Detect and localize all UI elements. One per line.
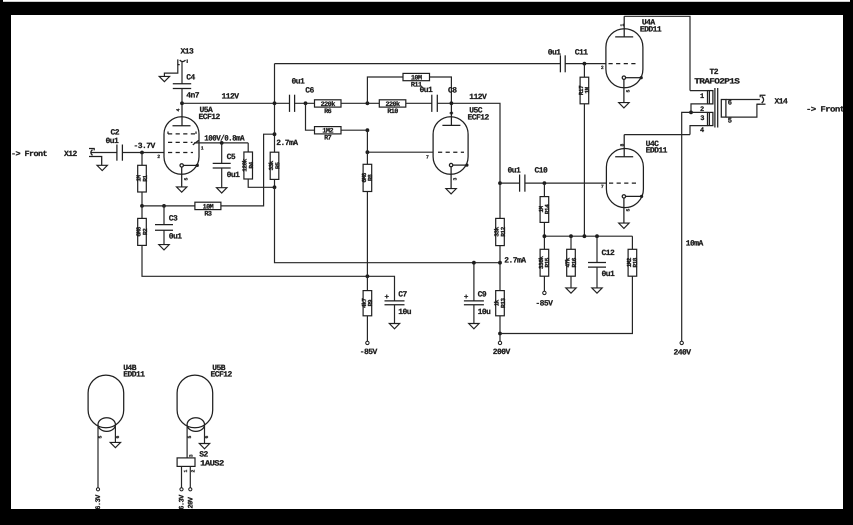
- svg-text:EDD11: EDD11: [123, 370, 145, 379]
- U5C cathode: [449, 163, 467, 188]
- value 0u1 (C8): [420, 86, 434, 95]
- label C9: [478, 291, 487, 300]
- tube U5A outline: [164, 117, 199, 175]
- ground under R16: [566, 288, 576, 293]
- svg-text:R6: R6: [324, 108, 332, 116]
- svg-text:2.7mA: 2.7mA: [276, 139, 298, 148]
- wire U5B pin5 to S2: [186, 426, 188, 458]
- wire R9 to -85V: [366, 316, 368, 341]
- resistor R5: [268, 134, 281, 187]
- svg-text:3: 3: [700, 115, 704, 123]
- resistor R18: [500, 236, 639, 333]
- pin 8 label (U5C anode): [449, 112, 455, 115]
- label 6.3V (U4B): [95, 494, 103, 510]
- svg-text:R16: R16: [571, 257, 578, 267]
- svg-text:1M: 1M: [584, 87, 591, 94]
- svg-text:R15: R15: [544, 257, 551, 267]
- node grid/R8: [366, 150, 370, 154]
- node cathode/envelope U4C: [640, 195, 643, 198]
- wire C10 to U4C grid: [525, 182, 607, 184]
- connector X14 jack: [757, 95, 766, 104]
- svg-text:0u1: 0u1: [227, 171, 241, 180]
- svg-text:100V/0.8mA: 100V/0.8mA: [204, 135, 244, 144]
- wire R3 to riser: [221, 134, 275, 206]
- ground under U5B: [199, 444, 209, 449]
- svg-text:EDD11: EDD11: [640, 25, 662, 34]
- value 0u1 (C5): [227, 171, 241, 180]
- svg-text:R1: R1: [142, 175, 149, 182]
- svg-text:ECF12: ECF12: [211, 370, 233, 379]
- resistor R15: [538, 249, 551, 291]
- svg-text:-85V: -85V: [535, 300, 553, 309]
- label 10mA: [686, 239, 704, 248]
- ground under X13: [159, 76, 169, 81]
- terminal 200V: [498, 341, 501, 344]
- resistor R10: [379, 100, 406, 116]
- svg-text:R9: R9: [367, 299, 374, 306]
- pin 7 label (U5C grid): [426, 154, 429, 160]
- wire R8 to rail: [366, 192, 368, 291]
- svg-text:0u1: 0u1: [106, 137, 120, 146]
- connector X12 label: [64, 150, 78, 159]
- wire R5 bottom to 2.7mA rail: [275, 187, 501, 290]
- svg-text:4n7: 4n7: [186, 92, 200, 101]
- U5A anode: [173, 103, 191, 126]
- wire 112V rail right: [437, 103, 500, 218]
- svg-text:1: 1: [700, 93, 704, 101]
- node C8/U5C anode: [450, 101, 454, 105]
- value 0u1 (C10): [508, 167, 522, 176]
- wire R2 bottom rail: [142, 245, 395, 301]
- svg-text:C6: C6: [305, 87, 314, 96]
- svg-text:R7: R7: [324, 135, 332, 143]
- svg-text:R8: R8: [367, 174, 374, 181]
- svg-text:6.3V: 6.3V: [179, 494, 187, 510]
- label 1AUS2: [200, 460, 224, 469]
- svg-text:10mA: 10mA: [686, 239, 704, 248]
- svg-text:R4: R4: [248, 162, 255, 169]
- svg-text:0u1: 0u1: [602, 270, 616, 279]
- label -85V (R15): [535, 300, 553, 309]
- wire R10 to C8: [406, 102, 432, 104]
- tube U4B outline: [88, 375, 124, 428]
- wire U5C grid: [367, 151, 433, 153]
- pin 5 label (U4A cathode): [626, 90, 632, 93]
- U5A grid g2: [168, 140, 199, 145]
- pin 5 label (U5A cathode): [183, 178, 189, 181]
- ground under U4C: [619, 223, 629, 228]
- node R12/R13 on rail: [498, 261, 502, 265]
- svg-text:0u1: 0u1: [508, 167, 522, 176]
- resistor R14: [538, 183, 551, 249]
- wire S2 pin1: [181, 466, 183, 487]
- svg-text:C8: C8: [448, 87, 457, 96]
- node 200V: [498, 332, 502, 336]
- node C4/U5A anode: [180, 101, 184, 105]
- U5A grid g1: [168, 152, 193, 154]
- ground under U4B: [110, 442, 120, 447]
- node cathode/envelope U5A: [196, 164, 199, 167]
- pin 6 label (U4B): [115, 436, 121, 439]
- node C10 input: [498, 181, 502, 185]
- svg-text:R2: R2: [142, 228, 149, 235]
- resistor R12: [493, 218, 506, 262]
- ground under C7: [389, 324, 399, 329]
- svg-text:C11: C11: [575, 48, 589, 57]
- node R14/R15: [543, 234, 547, 238]
- pin 6 label (T2): [728, 100, 732, 108]
- svg-text:0u1: 0u1: [420, 86, 434, 95]
- U4B heater: [98, 418, 115, 432]
- wire U4C anode to trafo pin4: [624, 134, 690, 136]
- svg-text:240V: 240V: [674, 349, 692, 358]
- svg-text:X14: X14: [775, 98, 789, 107]
- svg-text:10u: 10u: [478, 308, 492, 317]
- svg-text:-> Front: -> Front: [11, 150, 48, 159]
- terminal U4B heater: [96, 488, 99, 491]
- label C12: [602, 249, 616, 258]
- transformer T2 winding 3-4: [690, 112, 713, 134]
- svg-text:EDD11: EDD11: [646, 147, 668, 156]
- svg-text:C7: C7: [398, 291, 407, 300]
- wire bias rail: [544, 235, 632, 237]
- wire U5B pin6: [204, 426, 206, 444]
- wire C11 to U4A grid: [565, 63, 606, 65]
- wire S2 pin2: [189, 466, 191, 487]
- svg-text:6.3V: 6.3V: [95, 494, 103, 510]
- terminal S2 pin1: [180, 488, 183, 491]
- pin 3 label (S2): [188, 454, 194, 457]
- svg-text:-3.7V: -3.7V: [134, 142, 156, 151]
- resistor R4: [242, 143, 275, 187]
- svg-text:C9: C9: [478, 291, 487, 300]
- tube U5C outline: [433, 117, 468, 175]
- resistor R2: [135, 218, 148, 245]
- node R5 top / 112V riser: [273, 132, 277, 136]
- label ECF12 (U5A): [199, 113, 221, 122]
- plus sign C9: [464, 294, 469, 302]
- label C4: [186, 74, 195, 83]
- svg-text:TRAFO2P1S: TRAFO2P1S: [694, 78, 740, 87]
- value 0u1 (C11): [548, 48, 562, 57]
- label X14: [775, 98, 789, 107]
- label S2: [199, 451, 208, 460]
- U4A cathode: [622, 76, 641, 103]
- ground under C3: [159, 245, 169, 250]
- pin 7 label (U4C grid): [601, 184, 604, 190]
- label 112V (left): [222, 92, 240, 101]
- value 4n7: [186, 92, 200, 101]
- tube U4C outline: [606, 149, 643, 208]
- label C7: [398, 291, 407, 300]
- svg-text:R14: R14: [544, 204, 551, 214]
- svg-text:4: 4: [700, 127, 704, 135]
- capacitor C6: [290, 95, 315, 112]
- label C10: [535, 167, 549, 176]
- label T2: [710, 68, 719, 77]
- wire to C10: [500, 182, 520, 184]
- ground under C12: [592, 288, 602, 293]
- svg-text:0u1: 0u1: [548, 48, 562, 57]
- plus sign C7: [385, 294, 390, 302]
- svg-text:T2: T2: [710, 68, 719, 77]
- label U5A: [200, 106, 214, 115]
- label U5B: [212, 364, 226, 373]
- resistor R7: [306, 103, 368, 142]
- value 0u1 (C3): [169, 233, 183, 242]
- terminal S2 pin2: [189, 488, 192, 491]
- svg-text:0u1: 0u1: [169, 233, 183, 242]
- wire node to R2: [141, 206, 143, 219]
- label C3: [169, 215, 178, 224]
- svg-text:C3: C3: [169, 215, 178, 224]
- label -> Front (right output): [806, 106, 845, 115]
- label EDD11 (U4C): [646, 147, 668, 156]
- value 10u (C9): [478, 308, 492, 317]
- svg-text:-> Front: -> Front: [806, 106, 845, 115]
- label C11: [575, 48, 589, 57]
- label 20V (S2): [188, 496, 196, 508]
- resistor R11: [367, 73, 451, 103]
- svg-text:X13: X13: [181, 48, 195, 57]
- wire center tap to 240V: [682, 112, 691, 341]
- label 2.7mA (left): [276, 139, 298, 148]
- pin 4 label (U5A anode): [175, 109, 181, 112]
- label C6: [305, 87, 314, 96]
- svg-text:112V: 112V: [222, 92, 240, 101]
- switch S2: [177, 458, 195, 467]
- node C9 on rail: [472, 261, 476, 265]
- svg-text:R12: R12: [500, 226, 507, 236]
- node 112V / riser: [273, 101, 277, 105]
- label -85V (R9): [360, 348, 378, 357]
- wire U5A g2 out (pin 1): [194, 142, 248, 144]
- svg-text:0u1: 0u1: [292, 78, 306, 87]
- wire C11 feed: [275, 63, 561, 65]
- wire U4A anode to trafo pin1: [624, 16, 690, 90]
- pin 4 label (T2): [700, 127, 704, 135]
- svg-text:112V: 112V: [469, 93, 487, 102]
- wire X13 to C4: [181, 62, 183, 84]
- ground under U5A: [177, 187, 187, 192]
- pin 6 label (U5B): [204, 436, 210, 439]
- node U5A g2 / C5 / R4: [220, 141, 224, 145]
- wire C11 feed riser: [274, 64, 276, 135]
- svg-text:S2: S2: [199, 451, 208, 460]
- svg-text:C4: C4: [186, 74, 195, 83]
- pin 2 label (S2): [190, 470, 196, 473]
- node R16 top: [569, 234, 573, 238]
- resistor R9: [361, 291, 374, 316]
- label 6.3V (S2): [179, 494, 187, 510]
- wire C2 to U5A grid: [122, 152, 164, 154]
- U5A grid g3: [168, 132, 196, 134]
- capacitor C9: [464, 301, 484, 324]
- ground under X12: [97, 165, 107, 170]
- label 2.7mA (right): [504, 257, 526, 266]
- ground under C5: [217, 188, 227, 193]
- pin 5 label (T2): [728, 118, 732, 126]
- svg-text:6: 6: [728, 100, 732, 108]
- node C6/R6/R7: [304, 101, 308, 105]
- U4C grid dashes: [609, 182, 637, 184]
- svg-text:-85V: -85V: [360, 348, 378, 357]
- value 10u (C7): [398, 308, 412, 317]
- pin 3 label (U5C cathode): [453, 178, 459, 181]
- wire U4B pin6: [114, 426, 116, 443]
- tube U4A outline: [606, 29, 643, 88]
- svg-text:C5: C5: [227, 153, 236, 162]
- label U4A: [642, 19, 656, 28]
- label -3.7V: [134, 142, 156, 151]
- connector X13 jack: [178, 59, 187, 64]
- wire 112V rail left: [182, 102, 290, 104]
- value 0u1 (C12): [602, 270, 616, 279]
- svg-text:5: 5: [728, 118, 732, 126]
- connector X13 label: [181, 48, 195, 57]
- pin 8 label (U4C anode): [619, 144, 625, 147]
- pin 2 label (U5A grid): [157, 154, 160, 160]
- svg-text:R5: R5: [274, 162, 281, 169]
- svg-text:R13: R13: [500, 298, 507, 308]
- capacitor C12: [588, 236, 606, 288]
- tube U5B outline: [177, 375, 213, 428]
- terminal -85V (R9): [366, 341, 369, 344]
- ground under C9: [469, 324, 479, 329]
- ground wire X13: [164, 65, 177, 77]
- U4A grid dashes: [609, 63, 637, 65]
- capacitor C5: [213, 143, 231, 188]
- U4A anode: [615, 16, 633, 37]
- label C8: [448, 87, 457, 96]
- node C12 top: [595, 234, 599, 238]
- node T2 center tap: [689, 111, 693, 115]
- pin 1 label (U4A anode): [619, 24, 625, 27]
- label TRAFO2P1S: [694, 78, 740, 87]
- wire junction to R1: [141, 153, 143, 166]
- U4C cathode: [622, 195, 641, 223]
- pin 5 label (U5B): [187, 436, 193, 439]
- label U4C: [646, 140, 660, 149]
- capacitor C3: [155, 206, 173, 245]
- capacitor C7: [385, 301, 405, 324]
- node C11/R17: [583, 62, 587, 66]
- pin 2 label (T2): [700, 106, 704, 114]
- node R1/R2/C3/R3: [140, 204, 195, 208]
- wire 2.7mA rail risers: [473, 263, 475, 301]
- label EDD11 (U4A): [640, 25, 662, 34]
- label C5: [227, 153, 236, 162]
- transformer T2 winding 1-2: [690, 91, 713, 113]
- svg-text:ECF12: ECF12: [468, 113, 490, 122]
- resistor R6: [315, 100, 342, 116]
- label U4B: [123, 364, 137, 373]
- capacitor C4: [173, 84, 191, 104]
- value 0u1 (C2): [106, 137, 120, 146]
- wire R1 to node: [141, 192, 143, 206]
- pin 3 label (T2): [700, 115, 704, 123]
- resistor R1: [135, 165, 148, 192]
- pin 1 label (S2): [183, 470, 189, 473]
- svg-text:200V: 200V: [493, 348, 511, 357]
- U5C anode: [442, 103, 460, 125]
- svg-text:2.7mA: 2.7mA: [504, 257, 526, 266]
- wire R17 to rail: [583, 104, 585, 236]
- label 100V/0.8mA: [204, 135, 244, 144]
- node R7/riser: [366, 128, 370, 132]
- svg-text:R3: R3: [204, 210, 212, 218]
- terminal -85V (R15): [543, 291, 546, 294]
- label 240V: [674, 349, 692, 358]
- terminal 240V: [680, 341, 683, 344]
- wire R6 to node: [341, 102, 379, 104]
- ground under U4A: [619, 103, 629, 108]
- resistor R13: [493, 291, 506, 342]
- label ECF12 (U5B): [211, 370, 233, 379]
- wire U4B pin5: [97, 426, 99, 488]
- node R8/R9 on rail: [366, 274, 370, 278]
- connector X12 jack: [89, 149, 102, 166]
- capacitor C8: [432, 95, 438, 112]
- transformer T2 core: [715, 88, 718, 128]
- capacitor C10: [520, 175, 525, 192]
- U5A cathode: [180, 164, 197, 187]
- U5C grid dashes: [438, 151, 464, 153]
- node R6/R10/R11/grid riser: [366, 101, 370, 105]
- svg-text:ECF12: ECF12: [199, 113, 221, 122]
- wire X12 to C2: [92, 152, 117, 154]
- pin 1 label (T2): [700, 93, 704, 101]
- transformer T2 winding 6-5: [721, 100, 760, 118]
- label C2: [111, 129, 120, 138]
- svg-text:X12: X12: [64, 150, 78, 159]
- label U5C: [469, 107, 483, 116]
- resistor R8: [361, 164, 374, 191]
- svg-text:R10: R10: [387, 108, 398, 116]
- capacitor C11: [560, 55, 565, 72]
- svg-text:10u: 10u: [398, 308, 412, 317]
- capacitor C2: [117, 145, 123, 161]
- BORDERS: [843, 2, 853, 525]
- node cathode/envelope U4A: [640, 76, 643, 79]
- node C2/R1 junction: [140, 151, 144, 155]
- label -> Front (left input): [11, 150, 48, 159]
- label 200V: [493, 348, 511, 357]
- U4C anode: [615, 135, 633, 157]
- label 112V (right): [469, 93, 487, 102]
- svg-text:C12: C12: [602, 249, 616, 258]
- resistor R17: [578, 64, 591, 104]
- resistor R3: [195, 202, 221, 218]
- node R17 riser: [583, 234, 587, 238]
- svg-text:20V: 20V: [188, 496, 196, 508]
- pin 2 label (U4A grid): [601, 65, 604, 71]
- resistor R16: [564, 236, 577, 288]
- pin 5 label (U4B): [98, 436, 104, 439]
- U5B heater: [187, 418, 204, 432]
- label ECF12 (U5C): [468, 113, 490, 122]
- node C10/R14: [543, 181, 547, 185]
- label EDD11 (U4B): [123, 370, 145, 379]
- svg-text:1AUS2: 1AUS2: [200, 460, 224, 469]
- node cathode/envelope U5C: [465, 164, 468, 167]
- pin 5 label (U4C cathode): [626, 209, 632, 212]
- node R4/R5 bottom: [273, 185, 277, 189]
- value 0u1 (C6): [292, 78, 306, 87]
- wire riser R7 to grid: [366, 130, 368, 164]
- svg-text:C10: C10: [535, 167, 549, 176]
- svg-text:R18: R18: [632, 257, 639, 267]
